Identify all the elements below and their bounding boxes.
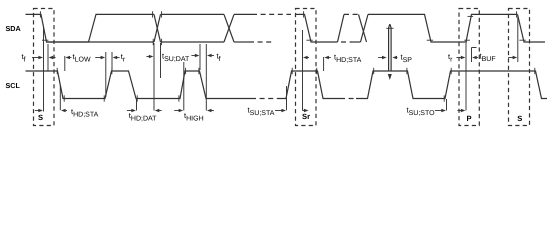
svg-text:SDA: SDA <box>6 24 21 33</box>
svg-text:SCL: SCL <box>6 81 21 90</box>
svg-text:S: S <box>517 114 522 123</box>
svg-text:S: S <box>38 113 43 122</box>
svg-text:Sr: Sr <box>302 112 310 121</box>
svg-text:P: P <box>467 114 472 123</box>
